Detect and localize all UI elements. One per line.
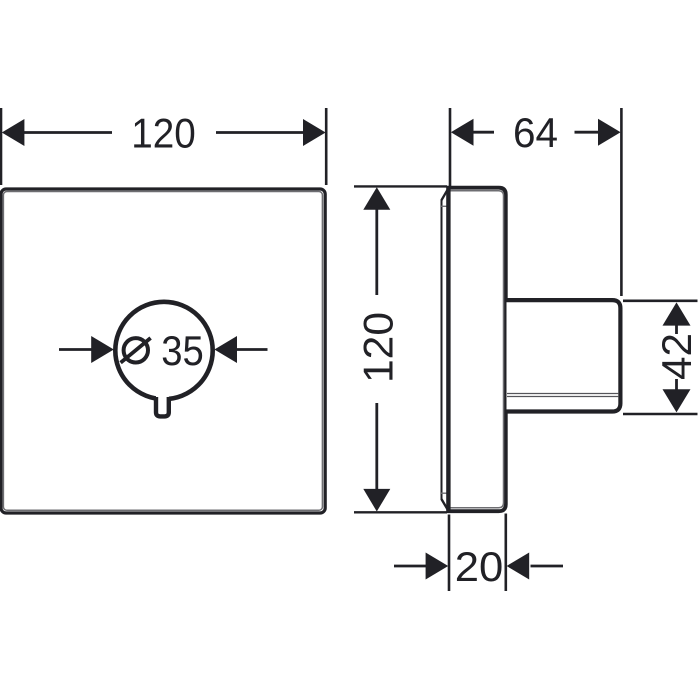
front escutcheon square outer edge — [1, 189, 325, 513]
handle circle — [115, 302, 212, 399]
side plate wall lip top chamfer — [441, 189, 447, 200]
dim Ø35 right arrow — [214, 336, 237, 363]
dim 64 left extension line — [449, 108, 452, 186]
dim 120 left top extension line — [354, 185, 447, 187]
dim 120 left bottom extension line — [354, 511, 447, 513]
dim 20 left arrow — [426, 553, 449, 580]
dim 64 left arrow — [451, 119, 474, 146]
dim 20 line left segment — [394, 565, 427, 568]
dim 42 top arrow — [663, 302, 691, 325]
dim Ø35 left line — [59, 348, 93, 351]
dim 64 right extension line — [620, 108, 623, 296]
dim Ø35 left arrow — [91, 336, 114, 363]
side plate outer contour — [448, 188, 505, 512]
dim 120 top right extension line — [325, 108, 328, 185]
dim 20 right extension line — [504, 514, 507, 592]
knob outline — [507, 300, 621, 411]
dim 20 right arrow — [507, 553, 530, 580]
knob detail line lower — [507, 396, 618, 398]
dim Ø35 right line — [237, 348, 268, 351]
dim 42 bottom extension line — [623, 413, 698, 416]
dim 120 top line left segment — [23, 131, 112, 134]
dim 120 left line upper segment — [375, 210, 378, 296]
dim 120 top line right segment — [216, 131, 304, 134]
side plate wall lip bottom chamfer — [441, 499, 447, 510]
dim 64 line left segment — [473, 131, 494, 134]
svg-text:42: 42 — [653, 333, 700, 380]
svg-text:120: 120 — [131, 110, 196, 157]
dim 42 bottom arrow — [663, 389, 691, 412]
svg-text:35: 35 — [161, 327, 204, 374]
dim 20 left extension line — [448, 515, 451, 592]
side plate inner edge — [450, 191, 504, 508]
dim 42 line lower segment — [675, 379, 678, 390]
dim 42 top extension line — [623, 299, 698, 302]
side plate wall lip bottom tick — [441, 492, 447, 494]
dim 120 top left extension line — [0, 108, 2, 185]
dim 120 left top arrow — [363, 187, 390, 210]
dim 120 left bottom arrow — [363, 489, 390, 512]
side plate front face edge (re-stroke over joins) — [446, 187, 450, 512]
side plate wall lip top tick — [441, 205, 447, 207]
svg-text:64: 64 — [513, 109, 558, 156]
knob detail line upper — [507, 393, 618, 395]
handle notch — [156, 395, 169, 416]
dim 20 line right segment — [531, 565, 564, 568]
dim 120 top right arrow — [303, 119, 326, 146]
dim 64 line right segment — [575, 131, 600, 134]
dim 120 left line lower segment — [375, 403, 378, 490]
dim 120 top left arrow — [2, 119, 25, 146]
svg-text:20: 20 — [455, 543, 504, 590]
side plate wall lip back edge — [441, 200, 443, 500]
dim 64 right arrow — [598, 119, 621, 146]
dim Ø35 text: diameter symbol — [124, 338, 148, 362]
svg-text:120: 120 — [355, 312, 402, 383]
front escutcheon square inner edge — [3, 192, 322, 511]
dim 42 line upper segment — [675, 325, 678, 334]
